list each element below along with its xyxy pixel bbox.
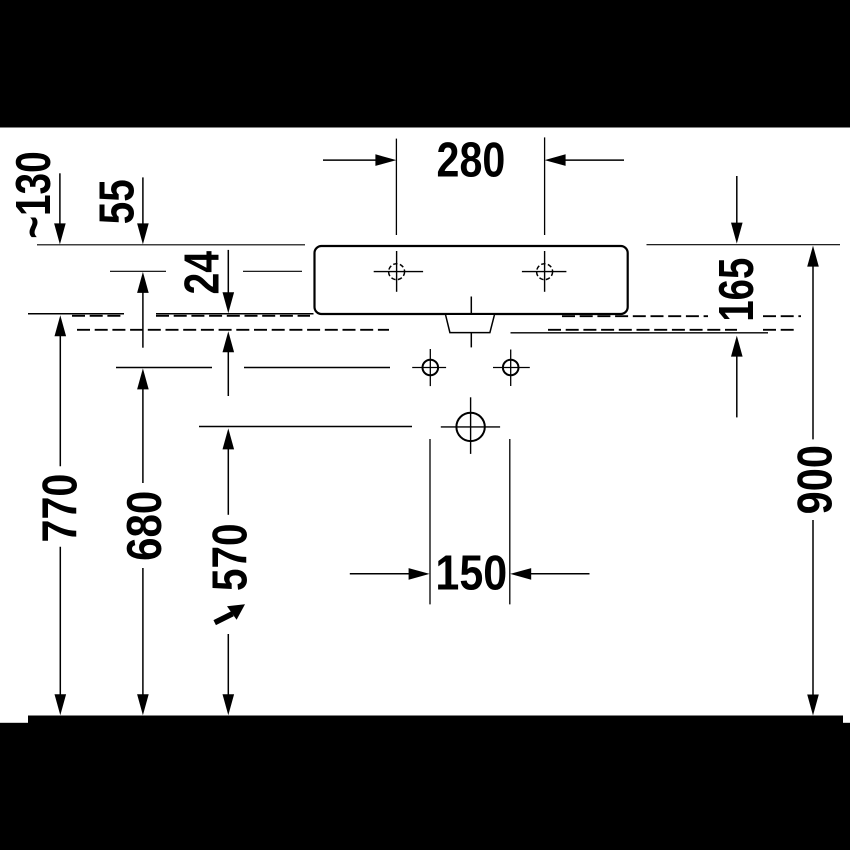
svg-text:150: 150 bbox=[435, 545, 507, 600]
dim 55 bbox=[142, 177, 144, 226]
top black bar bbox=[0, 0, 850, 128]
dim 150 extension lines bbox=[430, 439, 510, 604]
big drain circle bbox=[456, 413, 484, 441]
small mounting circle left bbox=[423, 360, 439, 376]
small mounting circle right bbox=[503, 360, 519, 376]
svg-text:24: 24 bbox=[174, 251, 229, 295]
dashed line B bbox=[72, 315, 801, 317]
solid line D right bbox=[511, 332, 769, 334]
dim 280: extension lines bbox=[396, 137, 544, 235]
svg-text:570: 570 bbox=[203, 524, 258, 592]
dim ~130 bbox=[59, 173, 61, 226]
svg-text:900: 900 bbox=[788, 445, 843, 514]
dim 680 bbox=[137, 272, 149, 293]
wall top reference line bbox=[37, 244, 840, 246]
solid line A below basin bbox=[28, 313, 314, 315]
svg-text:770: 770 bbox=[33, 474, 88, 543]
svg-text:165: 165 bbox=[709, 258, 764, 322]
tap hole right cross bbox=[522, 251, 567, 292]
svg-text:680: 680 bbox=[117, 491, 172, 561]
horizontal line E at drain level bbox=[199, 426, 412, 428]
floor slab bbox=[0, 723, 850, 850]
dim 165 bbox=[736, 176, 738, 226]
basin body bbox=[315, 246, 628, 314]
dim 150 arrows bbox=[350, 573, 412, 575]
drain center line bbox=[470, 297, 472, 348]
drain trapezoid bbox=[446, 315, 495, 333]
svg-text:~130: ~130 bbox=[6, 151, 61, 238]
dim 280 arrows bbox=[323, 159, 378, 161]
dim 770 bbox=[55, 315, 67, 336]
svg-text:280: 280 bbox=[437, 132, 506, 187]
dashed line C bbox=[77, 329, 795, 331]
floor step strip bbox=[28, 716, 843, 724]
tap hole left cross bbox=[374, 251, 423, 292]
dim 570 bbox=[223, 428, 235, 449]
tap level line left bbox=[110, 270, 302, 272]
svg-text:55: 55 bbox=[90, 179, 145, 224]
dim 24 bbox=[227, 250, 229, 294]
mounting hole level line bbox=[116, 367, 390, 369]
NE pointer arrow bbox=[215, 604, 245, 622]
dim 900 bbox=[807, 246, 819, 267]
